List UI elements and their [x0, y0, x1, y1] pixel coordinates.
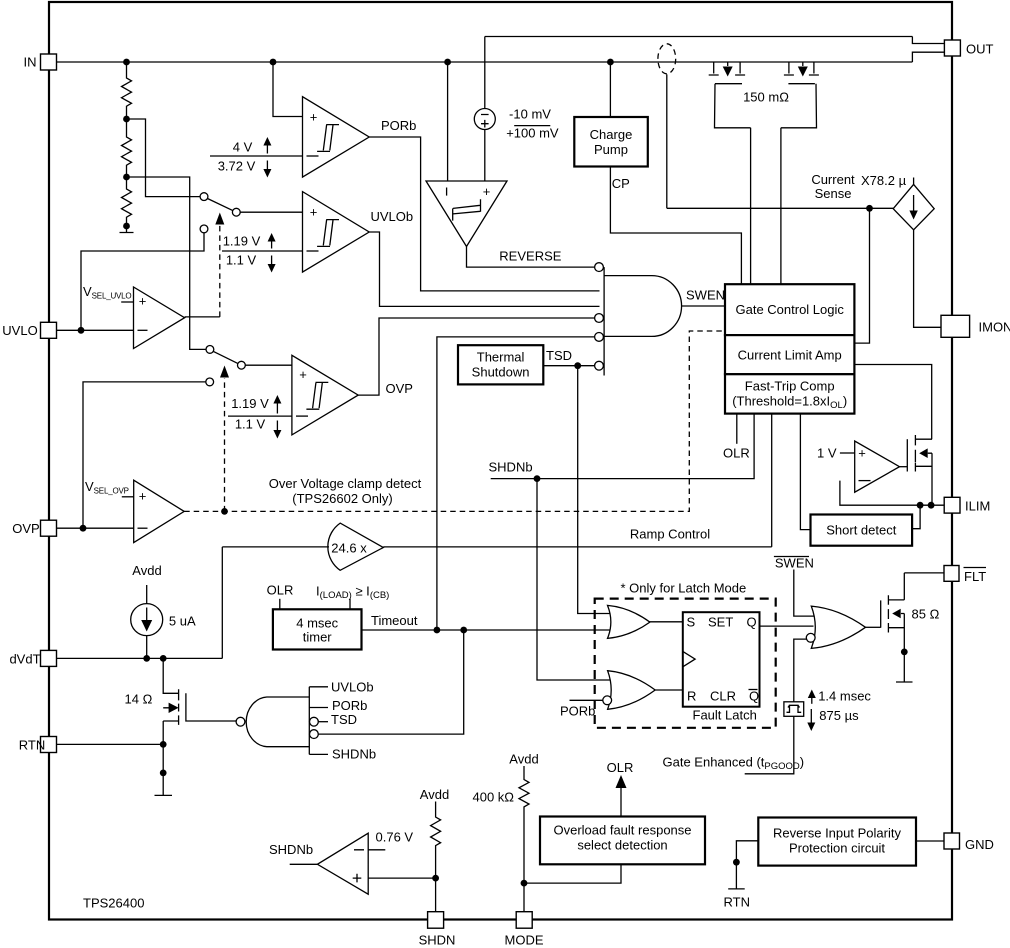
- svg-text:SHDN: SHDN: [419, 933, 456, 948]
- svg-text:OLR: OLR: [267, 583, 294, 598]
- dashed box fault latch group: [595, 599, 776, 728]
- arrow up 1.19V OVP: [276, 402, 278, 414]
- svg-text:1.1 V: 1.1 V: [235, 417, 266, 432]
- svg-text:1.4 msec: 1.4 msec: [818, 689, 871, 704]
- transistor FLT pulldown FET: [880, 600, 882, 627]
- wire UVLO switch lower contact to UVLO pin net: [81, 233, 204, 330]
- svg-text:Reverse Input Polarity: Reverse Input Polarity: [773, 826, 901, 841]
- wire MODE node to MODE pin: [523, 883, 525, 912]
- arrow up 1.4 msec: [811, 697, 813, 704]
- svg-text:IMON: IMON: [979, 320, 1010, 335]
- bubble AND input OVP: [595, 314, 604, 323]
- pin FLT (active low): [944, 566, 959, 582]
- block Charge Pump: [574, 117, 648, 167]
- wire 1V stub to comparator plus: [840, 452, 855, 454]
- svg-text:GND: GND: [965, 837, 994, 852]
- svg-text:CP: CP: [612, 176, 630, 191]
- wire PORb stub to R OR gate: [570, 699, 603, 701]
- svg-text:OVP: OVP: [386, 381, 413, 396]
- wire CP charge pump output to Gate Control Logic: [610, 167, 741, 285]
- wire tap2 to OVP switch upper contact: [127, 177, 206, 349]
- svg-text:select detection: select detection: [577, 838, 667, 853]
- bubble NAND input timeout: [310, 730, 319, 739]
- arrow down 1.1V: [271, 256, 273, 266]
- svg-text:OLR: OLR: [607, 760, 634, 775]
- dashed select control to UVLO switch: [219, 225, 221, 317]
- wire I(LOAD) stub to timer: [349, 599, 351, 610]
- wire NAND input stub UVLOb: [309, 686, 328, 688]
- wire current sense down to Current Limit Amp: [854, 208, 869, 343]
- svg-text:RTN: RTN: [19, 738, 45, 753]
- junction on IN rail at divider: [123, 59, 130, 66]
- svg-text:+100 mV: +100 mV: [506, 125, 559, 140]
- svg-text:UVLOb: UVLOb: [331, 680, 374, 695]
- wire pulse box to OR bubble: [794, 639, 807, 702]
- svg-text:Thermal: Thermal: [477, 350, 525, 365]
- wire RIP box to GND pin: [916, 840, 944, 842]
- dashed ellipse OUT connection marker: [658, 44, 676, 74]
- OR gate R input: [608, 671, 656, 710]
- wire Current Limit Amp output to ILIM FET drain: [854, 365, 931, 440]
- svg-text:85 Ω: 85 Ω: [912, 607, 940, 622]
- wire OVP switch common to OVP comparator: [245, 364, 292, 366]
- pin UVLO: [41, 322, 57, 338]
- junction ILIM net at FET source: [928, 502, 935, 509]
- pin OUT: [944, 40, 960, 56]
- svg-text:S: S: [687, 615, 696, 630]
- junction IN rail to REVERSE comparator: [444, 59, 451, 66]
- clock triangle fault latch: [683, 651, 695, 666]
- resistor R top of input divider: [122, 62, 132, 119]
- wire S OR output to latch S: [649, 621, 683, 623]
- svg-text:UVLO: UVLO: [2, 323, 37, 338]
- wire current sense line to X78.2u source: [667, 207, 893, 209]
- junction divider tap 1: [123, 116, 130, 123]
- wire MODE node to overload detect box: [524, 864, 621, 883]
- svg-text:Overload fault response: Overload fault response: [553, 823, 691, 838]
- bubble NAND output: [236, 717, 245, 726]
- wire ramp control line with 24.6x amp: [222, 546, 771, 548]
- wire 0.76V stub to minus input: [368, 849, 385, 851]
- pin IMON: [941, 315, 970, 337]
- wire pulse box down to gate enhanced: [745, 716, 794, 774]
- wire TSD down to fault latch S OR gate: [578, 366, 610, 614]
- switch OVP select: common contact: [238, 361, 246, 369]
- wire VSEL_UVLO plus input stub: [121, 301, 133, 303]
- svg-text:FLT: FLT: [964, 569, 986, 584]
- wire OUT neck to OUT pin: [912, 37, 944, 63]
- svg-text:Sense: Sense: [815, 186, 852, 201]
- gate node shape 150 mOhm: [715, 84, 817, 128]
- bubble R OR input PORb: [603, 696, 612, 705]
- block Fast-Trip Comp: [725, 374, 854, 413]
- svg-text:4 msec: 4 msec: [296, 616, 338, 631]
- junction divider tap 2: [123, 174, 130, 181]
- wire SHDNb down to fault latch R OR gate: [537, 479, 611, 680]
- switch UVLO select: lower contact: [200, 225, 208, 233]
- wire diamond to IMON pin: [914, 230, 941, 327]
- stub above diamond: [913, 178, 915, 185]
- svg-text:Gate Control Logic: Gate Control Logic: [735, 302, 844, 317]
- svg-text:Avdd: Avdd: [132, 563, 161, 578]
- svg-text:3.72 V: 3.72 V: [218, 159, 256, 174]
- arrow up 1.19V: [271, 240, 273, 249]
- dashed select control to OVP switch: [224, 378, 226, 511]
- junction divider bottom: [123, 223, 130, 230]
- bubble OR input gate-enhanced: [806, 633, 815, 642]
- svg-text:+: +: [299, 367, 307, 382]
- hysteresis glyph PORb: [317, 125, 339, 152]
- svg-text:+: +: [310, 205, 318, 220]
- junction IN rail to charge pump: [607, 59, 614, 66]
- wire dVdT riser to ramp line: [221, 547, 223, 659]
- junction RTN at FET source: [160, 741, 167, 748]
- svg-text:+: +: [139, 489, 147, 504]
- hysteresis glyph OVP: [306, 382, 328, 409]
- arrow up 4V: [266, 144, 268, 154]
- wire FET gate leg 2 to Gate Control Logic: [780, 128, 782, 284]
- transistor 14 Ohm discharge FET: [163, 658, 178, 721]
- switch UVLO select: blade: [208, 199, 233, 211]
- svg-text:Avdd: Avdd: [420, 787, 449, 802]
- svg-text:Shutdown: Shutdown: [472, 365, 530, 380]
- wire offset source to REVERSE comparator right input: [484, 130, 486, 182]
- svg-text:UVLOb: UVLOb: [371, 209, 414, 224]
- block Gate Control Logic: [725, 284, 854, 335]
- pin SHDN: [428, 912, 444, 929]
- junction on dashed select line: [221, 508, 228, 515]
- wire AND timeout input from timer line: [437, 337, 594, 630]
- wire REVERSE output to AND gate bubble: [467, 247, 595, 268]
- op-amp PORb comparator: [303, 97, 370, 177]
- op-amp 1V short comparator: [855, 441, 900, 492]
- svg-text:4 V: 4 V: [233, 140, 253, 155]
- op-amp SHDN comparator (faces left): [317, 833, 368, 894]
- svg-text:ILIM: ILIM: [965, 499, 990, 514]
- svg-text:Fast-Trip Comp: Fast-Trip Comp: [745, 379, 835, 394]
- bubble AND input TSD: [595, 361, 604, 370]
- svg-text:-10 mV: -10 mV: [509, 107, 551, 122]
- svg-text:Short detect: Short detect: [826, 523, 896, 538]
- svg-text:SHDNb: SHDNb: [332, 747, 376, 762]
- wire IN to charge pump: [609, 62, 611, 117]
- svg-text:Fault Latch: Fault Latch: [693, 708, 757, 723]
- wire SHDNb from Fast-Trip down: [491, 414, 754, 479]
- power FET 2 of eFuse pair: [784, 62, 819, 75]
- svg-text:SWEN: SWEN: [686, 288, 725, 303]
- wire IN to REVERSE comparator left input: [447, 62, 449, 181]
- wire ILIM net: [840, 481, 944, 506]
- svg-text:1.19 V: 1.19 V: [223, 234, 261, 249]
- svg-text:CLR: CLR: [710, 689, 736, 704]
- svg-text:Q: Q: [747, 615, 757, 630]
- junction timeout at AND branch: [434, 627, 441, 634]
- bubble AND input REVERSE: [595, 263, 604, 272]
- op-amp UVLOb comparator: [303, 192, 370, 273]
- svg-text:(Threshold=1.8xIOL): (Threshold=1.8xIOL): [732, 394, 847, 412]
- transistor ILIM clamp FET: [906, 439, 908, 471]
- pin dVdT: [41, 650, 57, 666]
- wire Avdd stub to 5uA source: [146, 585, 148, 604]
- svg-text:1 V: 1 V: [817, 446, 837, 461]
- junction OVP pin node: [80, 525, 87, 532]
- wire VSEL_OVP plus input stub: [122, 496, 134, 498]
- junction MODE node: [521, 880, 528, 887]
- wire OUT rail corner down to offset source: [484, 37, 486, 109]
- resistor R middle of input divider: [122, 119, 132, 177]
- block 4 msec timer: [273, 609, 362, 649]
- wire SHDN pin to comparator plus: [368, 877, 435, 879]
- wire SHDN node to SHDN pin: [435, 878, 437, 912]
- junction FLT FET source: [901, 649, 908, 656]
- wire ramp control from Fast-Trip down: [771, 414, 773, 547]
- op-amp OVP comparator: [292, 355, 358, 435]
- hysteresis glyph REVERSE (rotated): [453, 199, 481, 220]
- switch UVLO select: common contact: [232, 208, 240, 216]
- wire OLR stub to timer: [279, 599, 281, 610]
- svg-text:SWEN: SWEN: [775, 556, 814, 571]
- switch UVLO select: upper contact: [200, 193, 208, 201]
- svg-text:Over Voltage clamp detect: Over Voltage clamp detect: [269, 476, 422, 491]
- ground 14 Ohm FET source: [155, 794, 173, 796]
- wire UVLOb minus input with threshold bar: [222, 250, 303, 252]
- svg-text:150 mΩ: 150 mΩ: [743, 90, 789, 105]
- svg-text:REVERSE: REVERSE: [499, 249, 561, 264]
- amplifier 24.6x: [328, 523, 383, 570]
- junction UVLO pin node: [78, 327, 85, 334]
- svg-text:400 kΩ: 400 kΩ: [473, 790, 515, 805]
- wire short detect output up to ILIM net: [912, 505, 920, 529]
- svg-text:PORb: PORb: [332, 698, 367, 713]
- wire IN to PORb plus input: [273, 62, 303, 117]
- wire OLR stub below Fast-Trip: [736, 414, 738, 444]
- wire OVP pin to VSEL_OVP minus: [57, 527, 134, 529]
- resistor R bottom of input divider: [122, 177, 132, 226]
- junction IN rail to PORb comparator: [270, 59, 277, 66]
- OR gate FLT driver (3 input): [811, 606, 865, 648]
- svg-text:Avdd: Avdd: [509, 752, 538, 767]
- svg-text:IN: IN: [24, 55, 37, 70]
- switch OVP select: upper contact: [206, 346, 214, 354]
- arrow select control UVLO: [215, 213, 224, 225]
- wire short detect sense from Fast-Trip: [800, 414, 810, 530]
- junction TSD branch: [574, 362, 581, 369]
- AND gate SWEN (5 input): [603, 267, 605, 375]
- svg-text:875 µs: 875 µs: [819, 708, 859, 723]
- wire comparator output to ILIM FET gate: [900, 466, 908, 468]
- svg-text:PORb: PORb: [381, 118, 416, 133]
- wire timeout line to NAND input: [318, 630, 463, 734]
- wire OVP output to AND gate: [358, 318, 599, 395]
- wire FLT FET drain to FLT pin: [904, 572, 944, 574]
- svg-text:Timeout: Timeout: [371, 613, 418, 628]
- wire NAND input stub SHDNb: [309, 753, 328, 755]
- bubble NAND input TSD: [310, 717, 319, 726]
- svg-text:TSD: TSD: [546, 348, 572, 363]
- block pulse delay: [784, 702, 804, 717]
- voltage source -10mV/+100mV offset: [474, 109, 495, 130]
- pin RTN: [41, 737, 57, 753]
- wire SWEN AND output to Gate Control Logic: [681, 305, 725, 307]
- wire dVdT pin line: [57, 657, 223, 659]
- junction current sense to current limit amp: [866, 205, 873, 212]
- switch OVP select: blade: [213, 351, 238, 363]
- wire UVLOb output to AND gate: [369, 232, 599, 306]
- NAND gate gate-drive disable (faces left): [308, 687, 310, 755]
- svg-text:5 uA: 5 uA: [169, 614, 196, 629]
- ground FLT FET source: [896, 681, 913, 683]
- current source X78.2u diamond: [893, 184, 934, 229]
- svg-text:Protection circuit: Protection circuit: [789, 841, 885, 856]
- svg-text:Q: Q: [749, 689, 759, 704]
- wire NAND input stub PORb: [309, 707, 328, 709]
- wire OVP minus input with threshold bar: [228, 415, 292, 417]
- junction timeout at NAND branch: [460, 627, 467, 634]
- pin GND: [944, 833, 960, 849]
- arrow select control OVP: [220, 366, 229, 378]
- svg-text:+: +: [139, 294, 147, 309]
- wire OR output to FLT FET gate: [866, 626, 881, 628]
- svg-text:Charge: Charge: [590, 127, 633, 142]
- wire RTN pin line: [57, 743, 164, 745]
- wire RIP box to RTN ground: [736, 841, 758, 889]
- svg-text:24.6 x: 24.6 x: [331, 541, 367, 556]
- svg-text:TPS26400: TPS26400: [83, 896, 144, 911]
- wire IN rail y=62: [57, 61, 913, 63]
- svg-text:+: +: [483, 184, 491, 199]
- switch OVP select: lower contact: [206, 378, 214, 386]
- wire VSEL_UVLO output: [185, 316, 220, 318]
- svg-text:PORb: PORb: [560, 704, 595, 719]
- wire R OR output to latch R: [655, 689, 683, 691]
- svg-text:(TPS26602 Only): (TPS26602 Only): [292, 491, 392, 506]
- svg-text:14 Ω: 14 Ω: [125, 692, 153, 707]
- OR gate S input: [608, 605, 650, 638]
- wire FET gate leg 1 to Gate Control Logic: [750, 128, 752, 284]
- wire TSD to AND gate: [543, 365, 594, 367]
- junction below RTN: [160, 770, 167, 777]
- svg-text:OLR: OLR: [723, 446, 750, 461]
- wire UVLO switch common to UVLOb comparator: [240, 211, 302, 213]
- junction SHDNb branch: [534, 475, 541, 482]
- current source 5uA: [131, 604, 163, 636]
- junction dVdT at 5uA: [143, 655, 150, 662]
- arrow down 1.1V OVP: [276, 421, 278, 432]
- svg-text:X78.2 µ: X78.2 µ: [861, 173, 907, 188]
- bubble AND input timeout: [595, 333, 604, 342]
- svg-text:OUT: OUT: [966, 42, 994, 57]
- block Thermal Shutdown: [458, 345, 543, 384]
- dashed VSEL_OVP output route to Gate Control Logic: [184, 331, 725, 511]
- junction ILIM net at short detect: [917, 502, 924, 509]
- op-amp VSEL_UVLO comparator: [134, 287, 185, 349]
- wire UVLO pin to VSEL_UVLO comparator minus: [57, 329, 134, 331]
- svg-text:R: R: [687, 689, 696, 704]
- arrow down 3.72V: [266, 161, 268, 171]
- wire OUT top rail y=36.5: [485, 36, 913, 38]
- svg-text:dVdT: dVdT: [9, 652, 40, 667]
- wire OLR output arrow up: [620, 788, 622, 817]
- power FET 1 of eFuse pair: [709, 62, 745, 75]
- svg-text:+: +: [858, 446, 866, 461]
- block Fault Latch: [683, 612, 760, 707]
- svg-text:0.76 V: 0.76 V: [376, 830, 414, 845]
- arrow down 875 us: [810, 709, 812, 723]
- resistor MODE pullup 400k: [519, 766, 529, 883]
- svg-text:SET: SET: [708, 615, 733, 630]
- pin ILIM: [944, 497, 960, 513]
- svg-text:+: +: [310, 110, 318, 125]
- wire 5uA to dVdT line: [146, 636, 148, 659]
- pin MODE: [516, 912, 532, 929]
- wire latch Q to output OR gate: [760, 625, 814, 627]
- svg-text:OVP: OVP: [12, 521, 39, 536]
- junction dVdT at FET: [160, 655, 167, 662]
- op-amp REVERSE comparator (points down): [426, 181, 507, 247]
- svg-text:Current: Current: [811, 172, 855, 187]
- block Short detect: [811, 515, 913, 546]
- svg-text:Ramp Control: Ramp Control: [630, 527, 710, 542]
- hysteresis glyph UVLOb: [317, 220, 339, 247]
- wire timeout line to S OR gate: [362, 629, 611, 631]
- pin IN: [41, 54, 57, 70]
- wire SHDN comparator output: [290, 863, 318, 865]
- wire OUT sense drop to current sense line: [666, 74, 668, 208]
- ground divider bottom: [120, 226, 134, 233]
- block Overload fault response select detection: [540, 817, 705, 865]
- wire OVP switch lower contact to OVP pin net: [83, 382, 206, 528]
- block Reverse Input Polarity Protection circuit: [758, 818, 916, 866]
- pin OVP: [41, 520, 57, 536]
- svg-text:Current Limit Amp: Current Limit Amp: [738, 348, 842, 363]
- svg-text:1.19 V: 1.19 V: [231, 396, 269, 411]
- svg-text:timer: timer: [303, 630, 333, 645]
- svg-text:MODE: MODE: [505, 933, 544, 948]
- ground RTN (RIP box): [728, 888, 745, 890]
- junction SHDN node: [432, 875, 439, 882]
- svg-text:Pump: Pump: [594, 142, 628, 157]
- svg-text:TSD: TSD: [331, 712, 357, 727]
- wire PORb output to AND gate: [369, 137, 599, 291]
- svg-text:RTN: RTN: [724, 895, 750, 910]
- block Current Limit Amp: [725, 335, 854, 374]
- svg-text:1.1 V: 1.1 V: [226, 253, 257, 268]
- op-amp VSEL_OVP comparator: [134, 480, 185, 542]
- resistor SHDN pullup: [431, 802, 441, 879]
- svg-text:SHDNb: SHDNb: [269, 842, 313, 857]
- wire tap1 to UVLO switch upper contact: [127, 119, 201, 197]
- svg-text:* Only for Latch Mode: * Only for Latch Mode: [621, 581, 747, 596]
- svg-text:SHDNb: SHDNb: [489, 460, 533, 475]
- wire SWEN bar down to output OR gate: [794, 570, 814, 617]
- junction RTN ground: [733, 859, 740, 866]
- wire PORb minus input with threshold bar: [210, 155, 303, 157]
